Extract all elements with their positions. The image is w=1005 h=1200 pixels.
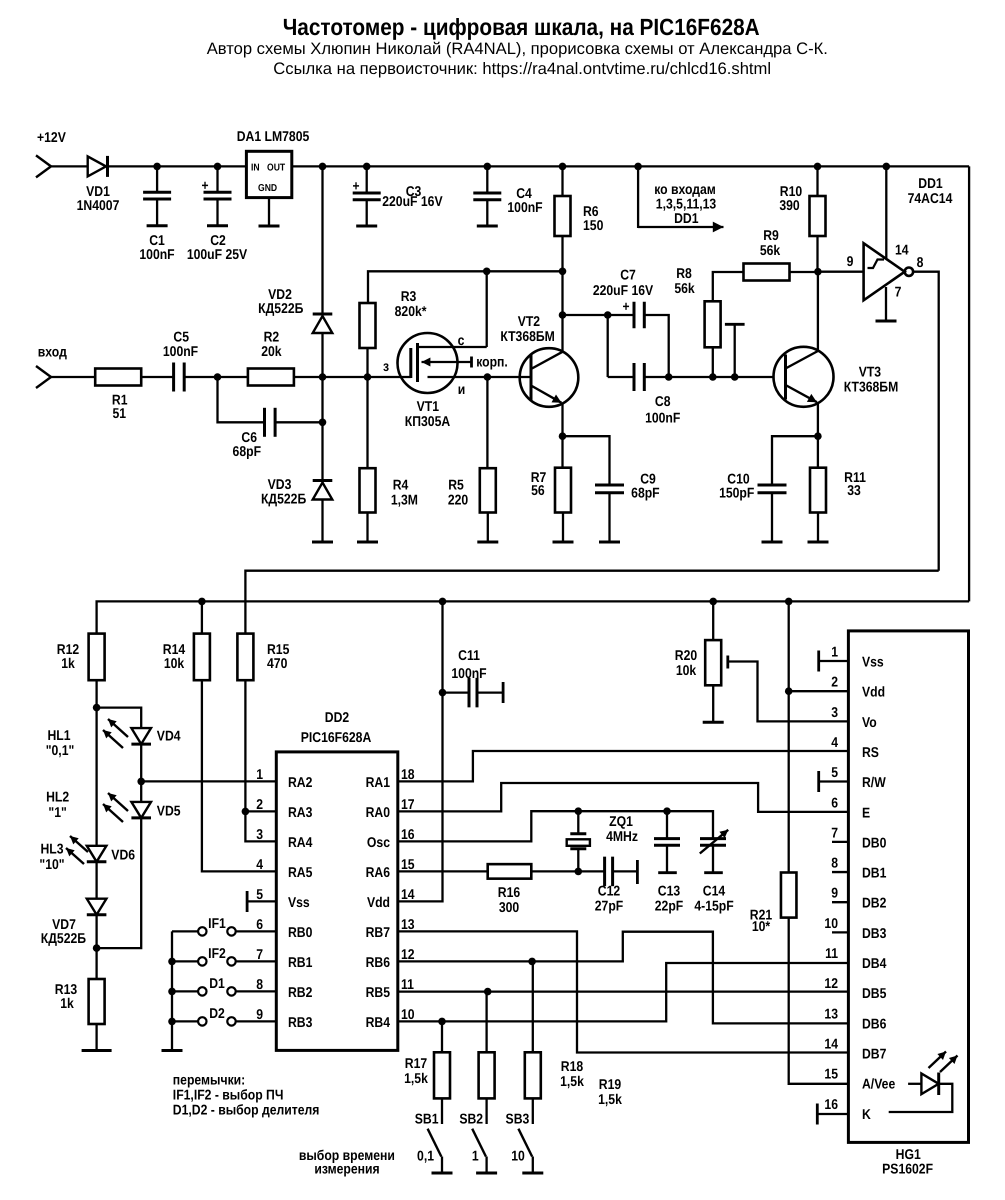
svg-text:Автор схемы Хлюпин Николай (RA: Автор схемы Хлюпин Николай (RA4NAL), про… [207, 39, 828, 58]
svg-text:E: E [862, 805, 870, 821]
wire jumper common [168, 931, 176, 1050]
svg-text:SB3: SB3 [506, 1112, 530, 1128]
node HG1 Vss tick [817, 651, 820, 672]
regulator DA1 LM7805 [246, 151, 291, 197]
resistor R12 [89, 634, 105, 681]
node tick common near R8 [725, 324, 745, 381]
label DD1 74AC14 [908, 176, 953, 207]
ground R5 [477, 541, 498, 544]
svg-text:4-15pF: 4-15pF [694, 899, 734, 915]
wire Vss pin5 stub [247, 900, 276, 902]
label SB1 [415, 1112, 439, 1128]
ground SB2 [476, 1172, 497, 1175]
svg-text:DB3: DB3 [862, 926, 887, 942]
capacitor C14 trimmer [700, 830, 728, 873]
svg-text:3: 3 [256, 827, 263, 843]
svg-text:RB4: RB4 [366, 1015, 391, 1031]
wire left chain [95, 708, 97, 846]
svg-text:R5: R5 [448, 478, 464, 494]
svg-text:SB2: SB2 [459, 1112, 483, 1128]
svg-text:RA4: RA4 [288, 835, 313, 851]
ground C10 [762, 541, 783, 544]
svg-text:C11: C11 [458, 648, 480, 664]
svg-text:5: 5 [831, 765, 838, 781]
label VD2 KD522B [258, 287, 303, 317]
wire Vdd to R21 [785, 601, 793, 872]
node C11 tick [477, 682, 503, 703]
label HL3 10 [39, 842, 64, 874]
svg-text:22pF: 22pF [655, 899, 684, 915]
ground C2 [207, 224, 228, 227]
led HG1 backlight [889, 1073, 953, 1113]
label R3 820k* [395, 289, 427, 320]
svg-text:R3: R3 [401, 289, 417, 305]
wire C6 to VD line [275, 419, 326, 427]
wire HG1 DB3 stub [832, 931, 848, 933]
svg-text:DD1: DD1 [918, 176, 943, 192]
svg-text:GND: GND [258, 183, 277, 194]
ground C3 [356, 225, 377, 228]
wire RA3 stub [245, 810, 276, 812]
label SB2 value [472, 1149, 479, 1165]
svg-text:2: 2 [831, 675, 838, 691]
svg-text:56k: 56k [674, 281, 694, 297]
svg-text:C13: C13 [658, 884, 680, 900]
svg-text:КД522Б: КД522Б [41, 931, 86, 947]
label R10 390 [779, 184, 802, 214]
svg-text:RS: RS [862, 745, 879, 761]
svg-text:DB2: DB2 [862, 896, 887, 912]
capacitor C2 polarized [201, 166, 231, 225]
svg-text:33: 33 [847, 483, 861, 499]
wire VT1 drain up [486, 271, 488, 347]
svg-text:DB5: DB5 [862, 986, 887, 1002]
transistor VT2 KT368BM [520, 348, 579, 407]
node +12V input terminal [36, 130, 66, 177]
resistor R11 [810, 436, 826, 512]
svg-text:DD1: DD1 [674, 211, 699, 227]
svg-text:150pF: 150pF [719, 486, 755, 502]
node input terminal vhod [36, 345, 67, 389]
resistor R21 [781, 873, 797, 918]
svg-text:K: K [862, 1107, 871, 1123]
svg-text:SB1: SB1 [415, 1112, 439, 1128]
label R20 10k [675, 648, 697, 679]
diode VD3 [313, 481, 333, 500]
label C9 68pF [631, 472, 660, 502]
jumper D2 [172, 1017, 276, 1025]
svg-text:1k: 1k [60, 996, 74, 1012]
resistor R6 [555, 166, 571, 271]
ic HG1 PS1602F box [848, 631, 968, 1143]
capacitor C8 [634, 363, 644, 391]
svg-text:RB1: RB1 [288, 955, 313, 971]
resistor R15 [237, 634, 253, 681]
svg-text:RB3: RB3 [288, 1015, 313, 1031]
jumper IF2 [172, 957, 276, 965]
label HL2 1 [46, 790, 69, 822]
svg-text:вход: вход [38, 345, 67, 361]
wire RA0 to E [398, 783, 849, 812]
svg-text:"10": "10" [39, 857, 64, 873]
label C4 100nF [507, 186, 543, 216]
svg-text:R/W: R/W [862, 775, 886, 791]
wire RA6 stub [398, 870, 488, 872]
wire C10 branch [772, 436, 818, 485]
label SB1 value [417, 1149, 434, 1165]
svg-text:VT3: VT3 [859, 365, 881, 381]
svg-text:RB2: RB2 [288, 985, 313, 1001]
svg-text:390: 390 [779, 198, 799, 214]
wire DD1 pin14 [885, 166, 887, 259]
svg-text:1: 1 [256, 767, 263, 783]
label VD6 [111, 848, 135, 864]
svg-text:4MHz: 4MHz [606, 829, 638, 845]
capacitor C12 [605, 857, 613, 887]
label R5 220 [448, 478, 468, 509]
label i source [458, 382, 466, 398]
svg-text:Vdd: Vdd [367, 895, 390, 911]
resistor R20 trimmer [705, 601, 721, 722]
title text [283, 14, 760, 40]
node HG1 RW tick [817, 771, 820, 792]
label C10 150pF [719, 472, 755, 502]
ground SB1 [432, 1172, 453, 1175]
wire DD1 pin7 gnd lead [885, 287, 887, 321]
label ko vhodam 1,3,5,11,13 DD1 [654, 182, 716, 227]
led HG1 backlight arrows [929, 1052, 958, 1073]
wire HG1 DB1 stub [832, 871, 848, 873]
wire inverter output [913, 272, 939, 571]
svg-text:1,5k: 1,5k [404, 1071, 428, 1087]
svg-text:56: 56 [531, 483, 545, 499]
svg-text:220uF 16V: 220uF 16V [382, 194, 443, 210]
svg-text:7: 7 [895, 285, 902, 301]
ground R20 [703, 721, 724, 724]
svg-text:1: 1 [831, 645, 838, 661]
capacitor C1 [143, 166, 171, 225]
svg-text:8: 8 [831, 856, 838, 872]
node HG1 K tick [816, 1104, 819, 1125]
svg-text:1N4007: 1N4007 [77, 198, 120, 214]
led VD6 arrows [66, 836, 88, 864]
wire VD4 to VD5 [137, 744, 145, 802]
svg-text:6: 6 [831, 795, 838, 811]
svg-text:R8: R8 [676, 266, 692, 282]
svg-text:RA5: RA5 [288, 865, 313, 881]
svg-text:IF2: IF2 [208, 946, 226, 962]
wire C7 node [559, 311, 634, 377]
wire R1 to C5 [141, 376, 173, 378]
label R6 150 [583, 204, 603, 234]
svg-text:R19: R19 [599, 1077, 621, 1093]
label IF1 [208, 916, 226, 932]
label korp. [476, 355, 508, 371]
svg-text:з: з [383, 359, 389, 375]
label C13 22pF [655, 884, 684, 915]
label VT1 KP305A [405, 399, 450, 430]
label pin 9 [847, 254, 854, 270]
resistor R5 [480, 377, 496, 513]
svg-text:PS1602F: PS1602F [882, 1161, 933, 1177]
wire branch to VD4 [97, 708, 142, 729]
label R12 1k [57, 642, 79, 672]
ground jumper common [162, 1049, 183, 1052]
label C12 27pF [595, 884, 624, 915]
ic HG1 pin names and numbers [824, 645, 895, 1123]
svg-text:+: + [622, 298, 629, 314]
svg-text:PIC16F628A: PIC16F628A [301, 730, 372, 746]
ground R4 [357, 541, 378, 544]
svg-text:20k: 20k [261, 344, 281, 360]
wire R15 to RA4 RA3 [242, 680, 277, 841]
resistor R7 [555, 436, 571, 512]
label DA1 LM7805 [237, 129, 310, 145]
svg-text:150: 150 [583, 218, 603, 234]
label R13 1k [55, 982, 77, 1012]
svg-text:10k: 10k [164, 656, 184, 672]
svg-text:D1: D1 [209, 976, 225, 992]
wire +12V rail [51, 165, 88, 167]
svg-text:DB0: DB0 [862, 835, 887, 851]
wire HG1 K stub [817, 1113, 848, 1115]
svg-text:C12: C12 [598, 884, 620, 900]
label IF2 [208, 946, 226, 962]
led VD5 [131, 802, 151, 818]
transistor VT1 KP305A [398, 333, 487, 393]
svg-text:9: 9 [831, 886, 838, 902]
wire RB4 to DB4 [398, 963, 849, 1025]
svg-text:RA2: RA2 [288, 775, 313, 791]
capacitor C3 polarized [352, 166, 380, 226]
led VD5 arrows [103, 793, 128, 822]
wire Vdd line [398, 601, 447, 901]
wire C7 right [644, 315, 668, 377]
svg-text:1,3,5,11,13: 1,3,5,11,13 [656, 196, 716, 212]
ground C4 [477, 225, 498, 228]
label HG1 PS1602F [882, 1147, 933, 1177]
label R11 33 [844, 470, 866, 499]
wire HG1 DB0 stub [832, 841, 848, 843]
wire RA1 to RS [398, 751, 849, 781]
label C7 220uF 16V [593, 268, 654, 300]
svg-text:0,1: 0,1 [417, 1149, 434, 1165]
wire to DD1 inputs [637, 166, 639, 228]
svg-text:16: 16 [824, 1097, 838, 1113]
wire R5 bottom [487, 513, 489, 543]
ground DD1 pin7 [876, 320, 897, 323]
svg-text:DA1 LM7805: DA1 LM7805 [237, 129, 310, 145]
svg-text:RA0: RA0 [366, 805, 391, 821]
svg-text:OUT: OUT [267, 163, 285, 174]
label VT2 KT368BM [500, 314, 555, 345]
jumper D1 [172, 987, 276, 995]
svg-text:1,5k: 1,5k [560, 1074, 584, 1090]
label HL1 0,1 [46, 728, 75, 759]
capacitor C9 [595, 485, 624, 493]
svg-text:4: 4 [256, 857, 263, 873]
svg-text:10: 10 [824, 916, 838, 932]
ground R11 [808, 541, 829, 544]
wire R7 bottom [562, 513, 564, 543]
svg-text:RB5: RB5 [366, 985, 391, 1001]
svg-text:13: 13 [824, 1006, 838, 1022]
label VT3 KT368BM [844, 365, 899, 396]
svg-text:R4: R4 [393, 478, 409, 494]
svg-text:R9: R9 [763, 228, 779, 244]
label C11 100nF [451, 648, 487, 682]
wire R18 top [485, 992, 487, 1053]
wire R11 bottom [817, 513, 819, 543]
label z gate [383, 359, 389, 375]
wire R21 to A/Vee [789, 918, 849, 1084]
label C3 220uF 16V [382, 184, 443, 210]
resistor R1 [95, 369, 141, 386]
svg-text:8: 8 [917, 255, 924, 271]
wire VT2 collector [561, 271, 563, 352]
svg-text:D1,D2 - выбор делителя: D1,D2 - выбор делителя [173, 1103, 320, 1119]
svg-text:RB6: RB6 [366, 955, 391, 971]
svg-text:12: 12 [824, 976, 838, 992]
wire input to R1 [51, 376, 95, 378]
label R19 1,5k [598, 1077, 622, 1108]
svg-text:IF1,IF2 - выбор ПЧ: IF1,IF2 - выбор ПЧ [173, 1088, 284, 1104]
ground SB3 [522, 1172, 543, 1175]
svg-text:измерения: измерения [314, 1161, 379, 1177]
diode VD1 [88, 156, 108, 177]
label R21 10* [750, 908, 772, 936]
wire R9 right [789, 271, 818, 273]
wire R3 to R4 [366, 348, 368, 468]
label VD5 [157, 804, 181, 820]
svg-text:C14: C14 [703, 884, 725, 900]
wire +5V rail drop right [968, 166, 970, 601]
wire VT3 collector [817, 272, 819, 351]
ground C9 [599, 541, 620, 544]
ic DD2 PIC16F628A box [276, 752, 398, 1051]
resistor R16 [488, 864, 532, 879]
svg-text:820k*: 820k* [395, 304, 427, 320]
svg-text:RB0: RB0 [288, 925, 313, 941]
label C6 68pF [233, 430, 262, 460]
svg-text:1: 1 [472, 1149, 479, 1165]
svg-text:VT2: VT2 [518, 314, 540, 330]
svg-text:+12V: +12V [37, 130, 66, 146]
capacitor C5 [174, 363, 185, 392]
resistor R8 [705, 301, 721, 347]
svg-text:15: 15 [824, 1067, 838, 1083]
resistor R17 [434, 1052, 450, 1098]
svg-text:Vo: Vo [862, 715, 877, 731]
svg-text:14: 14 [824, 1036, 838, 1052]
resistor R19 [525, 1052, 541, 1098]
label SB3 value [511, 1149, 525, 1165]
svg-text:IF1: IF1 [208, 916, 226, 932]
wire R14 to RA5 [202, 680, 276, 871]
svg-text:10: 10 [511, 1149, 525, 1165]
svg-text:DB4: DB4 [862, 956, 887, 972]
ic DD2 right pin names and numbers [366, 767, 415, 1031]
label R7 56 [531, 470, 547, 499]
wire C8 right to VT3 base [644, 373, 773, 381]
svg-text:RA6: RA6 [366, 865, 391, 881]
svg-text:68pF: 68pF [631, 486, 660, 502]
label SB3 [506, 1112, 530, 1128]
ground C1 [147, 224, 168, 227]
wire R2 to VT1 gate [294, 373, 411, 381]
svg-text:перемычки:: перемычки: [173, 1073, 245, 1089]
arrow ko vhodam DD1 [638, 222, 723, 233]
label R8 56k [674, 266, 694, 297]
wire C9 bottom [608, 493, 610, 542]
svg-text:56k: 56k [760, 243, 780, 259]
svg-text:R20: R20 [675, 648, 697, 664]
capacitor C6 [265, 408, 276, 437]
svg-text:DB1: DB1 [862, 866, 887, 882]
capacitor C4 [473, 166, 501, 226]
svg-text:HL3: HL3 [40, 842, 63, 858]
op-amp U1 schmitt inverter DD1 [864, 243, 914, 300]
svg-text:R18: R18 [561, 1059, 583, 1075]
wire R12 bottom node [93, 680, 101, 711]
svg-text:11: 11 [825, 946, 838, 962]
transistor VT3 KT368BM [774, 347, 834, 407]
svg-text:10*: 10* [752, 919, 771, 935]
wire R8 bottom [709, 347, 717, 381]
svg-text:1,3M: 1,3M [391, 493, 418, 509]
wire R17 top [441, 1021, 443, 1052]
label VD3 KD522B [261, 477, 306, 507]
wire HG1 Vss stub [819, 660, 849, 662]
svg-text:с: с [458, 333, 465, 349]
wire C9 branch [563, 436, 610, 485]
led VD6 [87, 846, 107, 862]
wire C10 bottom [771, 493, 773, 542]
svg-text:100uF 25V: 100uF 25V [187, 247, 248, 263]
capacitor C13 [654, 811, 680, 873]
svg-text:DB7: DB7 [862, 1046, 887, 1062]
ground R13 [82, 1049, 112, 1052]
svg-text:R17: R17 [405, 1056, 427, 1072]
ground VD3 [312, 541, 333, 544]
label C5 100nF [163, 330, 199, 361]
svg-text:КТ368БМ: КТ368БМ [500, 329, 555, 345]
subtitle author text [207, 39, 828, 58]
wire R19 top [532, 961, 534, 1052]
svg-text:R16: R16 [498, 885, 520, 901]
wire RB6 to DB6 [398, 932, 849, 1024]
wire VD5 down [97, 819, 142, 948]
svg-text:RA3: RA3 [288, 805, 313, 821]
resistor R14 [194, 601, 210, 680]
resistor R10 [810, 166, 826, 271]
wire VT1 source to VT2 [428, 373, 532, 381]
label C8 100nF [645, 394, 681, 427]
wire RB7 to DB7 [398, 931, 849, 1052]
svg-text:7: 7 [831, 825, 838, 841]
wire VT3 emitter [814, 402, 822, 440]
svg-text:C8: C8 [655, 394, 671, 410]
svg-text:27pF: 27pF [595, 899, 624, 915]
svg-text:VT1: VT1 [417, 399, 439, 415]
resistor R18 [479, 1052, 495, 1098]
svg-text:100nF: 100nF [139, 247, 175, 263]
wire RB5 to DB5 [398, 988, 849, 996]
svg-text:VD4: VD4 [157, 729, 181, 745]
svg-text:A/Vee: A/Vee [862, 1077, 895, 1093]
wire HG1 RW stub [819, 780, 849, 782]
wire R13 bottom [95, 1024, 97, 1051]
